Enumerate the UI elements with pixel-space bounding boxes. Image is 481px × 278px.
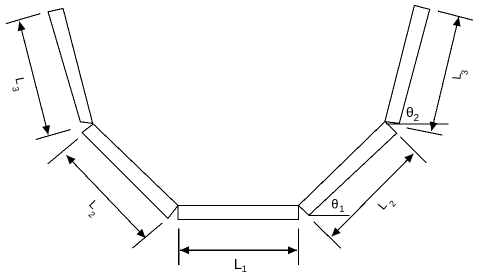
label L3 right — [449, 69, 469, 80]
svg-text:1: 1 — [242, 264, 247, 275]
label theta1 — [331, 197, 344, 216]
L1 dimension extension line left — [178, 229, 180, 266]
svg-text:2: 2 — [414, 113, 420, 124]
theta1 reference line — [309, 214, 350, 216]
label L1 — [234, 256, 247, 275]
L3 right dimension extension line upper — [438, 11, 473, 20]
L2 left dimension extension line lower — [132, 223, 162, 248]
bar L2 left (inclined link) — [82, 124, 178, 218]
theta2 reference line — [386, 123, 449, 125]
L3 right dimension extension line lower — [407, 128, 443, 135]
label L2 right — [375, 198, 398, 212]
L3 left dimension extension line lower — [36, 130, 71, 140]
svg-text:3: 3 — [459, 69, 469, 75]
L3 left dimension arrow line — [19, 22, 48, 135]
L2 left dimension extension line upper — [48, 139, 78, 164]
L3 right dimension arrow line — [432, 17, 459, 131]
svg-text:θ: θ — [331, 197, 338, 212]
bar L3 left (tip link) — [48, 9, 93, 124]
L1 dimension extension line right — [298, 229, 300, 266]
svg-text:1: 1 — [339, 204, 344, 215]
L2 right dimension extension line upper — [401, 137, 427, 163]
label L2 left — [86, 197, 101, 220]
label L3 left — [10, 76, 27, 93]
L3 left dimension extension line upper — [6, 14, 41, 24]
svg-text:3: 3 — [10, 86, 21, 93]
L1 dimension arrow line — [180, 249, 297, 251]
L2 left dimension arrow line — [66, 155, 145, 238]
L2 right dimension extension line lower — [314, 222, 341, 249]
bar L1 (center horizontal link) — [178, 206, 299, 220]
svg-text:L: L — [12, 76, 27, 86]
label theta2 — [406, 104, 420, 124]
L2 right dimension arrow line — [332, 154, 414, 237]
svg-text:2: 2 — [87, 209, 98, 220]
bar L3 right (tip link) — [385, 5, 430, 123]
bar L2 right (inclined link) — [299, 122, 397, 216]
